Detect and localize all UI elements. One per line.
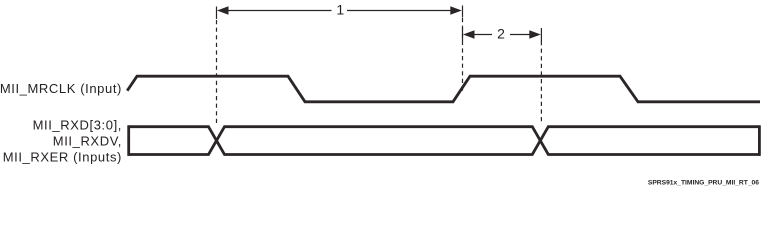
dimension arrow 2 left head bbox=[463, 30, 475, 38]
dashed reference line at second X crossing (x=541) bbox=[540, 41, 542, 124]
clock waveform MII_MRCLK bbox=[127, 76, 760, 102]
dashed reference line at clock rising edge (x=462) bbox=[462, 18, 464, 93]
svg-text:2: 2 bbox=[497, 26, 505, 42]
svg-text:SPRS91x_TIMING_PRU_MII_RT_06: SPRS91x_TIMING_PRU_MII_RT_06 bbox=[648, 180, 759, 187]
dimension arrow 1 shaft right segment bbox=[347, 10, 452, 12]
dimension arrow 2 shaft left segment bbox=[473, 34, 492, 36]
dashed reference line at first X crossing (x=216) bbox=[216, 20, 218, 124]
dimension arrow 1 shaft left segment bbox=[227, 10, 332, 12]
bus waveform lower zigzag bbox=[129, 127, 760, 155]
dimension arrow 1 left head bbox=[217, 6, 229, 14]
svg-text:MII_RXDV,: MII_RXDV, bbox=[53, 134, 122, 149]
dimension arrow 2 shaft right segment bbox=[510, 34, 530, 36]
dimension arrow 2 right tick bbox=[540, 28, 542, 42]
svg-text:1: 1 bbox=[336, 2, 344, 18]
bus left closed edge bbox=[127, 125, 130, 156]
dimension arrow 1 left tick bbox=[216, 7, 218, 20]
svg-text:MII_RXD[3:0],: MII_RXD[3:0], bbox=[33, 118, 122, 133]
bus waveform upper zigzag bbox=[129, 127, 760, 155]
dimension arrow 2 right head bbox=[529, 30, 541, 38]
dimension arrow 1 right head bbox=[450, 6, 462, 14]
dimension arrow 1 right tick bbox=[462, 6, 464, 18]
bus right closed edge bbox=[758, 125, 761, 156]
svg-text:MII_MRCLK (Input): MII_MRCLK (Input) bbox=[0, 81, 122, 96]
dimension arrow 2 left tick bbox=[462, 28, 464, 41]
svg-text:MII_RXER (Inputs): MII_RXER (Inputs) bbox=[3, 150, 122, 165]
